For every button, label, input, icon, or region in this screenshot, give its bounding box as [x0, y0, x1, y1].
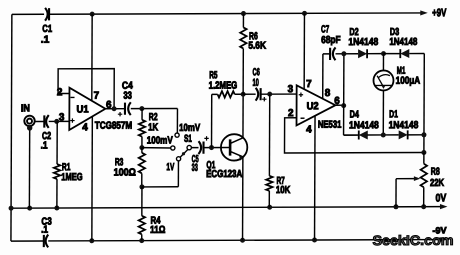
svg-text:5.6K: 5.6K — [248, 41, 266, 52]
svg-text:100Ω: 100Ω — [114, 167, 136, 178]
svg-text:33: 33 — [123, 91, 132, 102]
svg-text:7: 7 — [94, 91, 100, 102]
svg-text:8: 8 — [325, 88, 331, 99]
svg-text:100μA: 100μA — [396, 76, 421, 87]
svg-text:7: 7 — [306, 79, 312, 90]
svg-text:NE531: NE531 — [318, 120, 342, 131]
svg-text:SeekIC.com: SeekIC.com — [373, 233, 454, 248]
svg-text:.1: .1 — [41, 225, 48, 236]
svg-text:100mV: 100mV — [147, 135, 173, 146]
svg-text:2: 2 — [288, 108, 294, 119]
svg-text:4: 4 — [82, 122, 88, 133]
svg-text:D1: D1 — [389, 109, 398, 120]
svg-text:3: 3 — [288, 84, 294, 95]
svg-text:2: 2 — [57, 87, 63, 98]
svg-text:3: 3 — [59, 112, 65, 123]
svg-text:C6: C6 — [252, 67, 260, 78]
svg-text:11Ω: 11Ω — [150, 225, 165, 236]
svg-text:4: 4 — [306, 125, 312, 136]
svg-text:22K: 22K — [430, 178, 445, 189]
svg-text:TCG857M: TCG857M — [95, 121, 132, 132]
svg-text:1V: 1V — [166, 162, 174, 173]
svg-text:33: 33 — [192, 163, 198, 174]
svg-text:1.2MEG: 1.2MEG — [209, 80, 238, 91]
svg-text:S1: S1 — [184, 134, 192, 145]
svg-text:6: 6 — [106, 100, 112, 111]
svg-text:10K: 10K — [276, 185, 291, 196]
svg-text:+9V: +9V — [432, 7, 447, 19]
svg-text:1N4148: 1N4148 — [389, 120, 419, 131]
svg-text:1MEG: 1MEG — [61, 172, 82, 183]
svg-text:0V: 0V — [435, 192, 446, 204]
svg-text:1K: 1K — [148, 122, 158, 133]
svg-text:10mV: 10mV — [179, 123, 200, 134]
svg-text:R8: R8 — [431, 167, 440, 178]
svg-text:U1: U1 — [77, 104, 89, 115]
svg-text:6: 6 — [334, 96, 340, 107]
svg-text:IN: IN — [21, 103, 30, 114]
svg-text:1N4148: 1N4148 — [348, 37, 378, 48]
svg-text:C7: C7 — [321, 24, 329, 35]
svg-text:1N4148: 1N4148 — [389, 37, 417, 48]
svg-text:10: 10 — [252, 78, 259, 89]
svg-text:1N4148: 1N4148 — [349, 120, 379, 131]
svg-text:C1: C1 — [42, 24, 52, 35]
svg-text:.1: .1 — [41, 35, 50, 46]
svg-text:.1: .1 — [41, 140, 48, 151]
svg-text:U2: U2 — [307, 101, 319, 112]
svg-text:ECG123A: ECG123A — [206, 169, 243, 180]
svg-text:68pF: 68pF — [321, 35, 340, 46]
svg-text:D4: D4 — [350, 109, 360, 120]
